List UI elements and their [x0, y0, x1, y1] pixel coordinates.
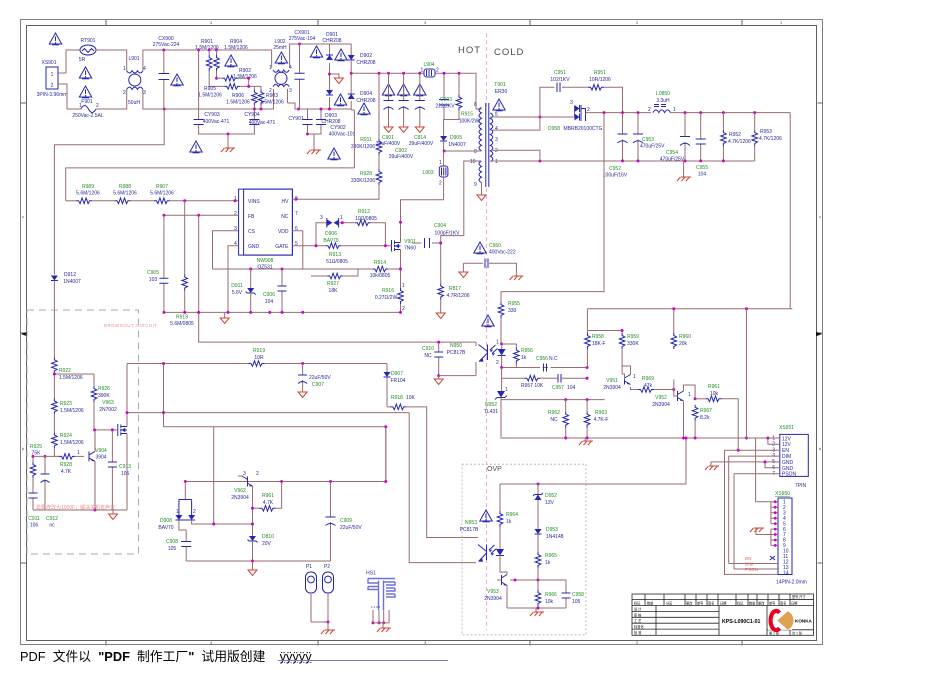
node gnd c952 — [621, 159, 624, 162]
svg-text:10k: 10k — [710, 391, 719, 397]
node C903 top — [443, 72, 446, 75]
svg-text:单号: 单号 — [697, 600, 703, 605]
resistor R914 — [213, 231, 391, 279]
svg-text:CY903: CY903 — [204, 112, 220, 118]
svg-text:R925: R925 — [30, 444, 42, 450]
svg-text:7: 7 — [295, 211, 298, 217]
svg-text:标准化: 标准化 — [634, 624, 644, 629]
node hs1 b — [378, 621, 381, 624]
capacitor C903 — [435, 73, 455, 119]
svg-text:1: 1 — [51, 72, 54, 78]
diode N953 LED — [496, 546, 504, 558]
svg-text:c: c — [22, 214, 24, 219]
capacitor C906 — [263, 269, 286, 312]
node bus1 g — [281, 311, 284, 314]
svg-text:4.7K: 4.7K — [263, 500, 274, 506]
svg-text:R989: R989 — [82, 184, 94, 190]
svg-text:10k/0805: 10k/0805 — [370, 273, 391, 279]
node stb b — [280, 480, 283, 483]
svg-text:2: 2 — [496, 360, 499, 366]
node r961 left — [694, 397, 697, 400]
svg-text:3904: 3904 — [95, 455, 106, 461]
warning triangle W10 — [335, 49, 347, 61]
node x950 p2 — [774, 506, 777, 509]
svg-text:R963: R963 — [595, 410, 607, 416]
svg-text:4.7K: 4.7K — [61, 469, 72, 475]
node HV pin wire — [294, 198, 297, 201]
resistor R955 — [498, 301, 520, 344]
svg-text:L0850: L0850 — [656, 91, 670, 97]
svg-text:NC: NC — [281, 214, 289, 220]
heatsink HS1 — [366, 571, 395, 611]
svg-text:RT901: RT901 — [81, 38, 96, 44]
svg-text:104: 104 — [567, 385, 576, 391]
resistor R953 — [752, 113, 782, 161]
transistor V951 — [603, 368, 636, 391]
svg-text:C956: C956 — [536, 356, 548, 362]
connector XS950 — [775, 491, 807, 586]
diode D902 — [348, 53, 376, 66]
svg-text:XS951: XS951 — [779, 425, 794, 431]
capacitor C952 — [603, 113, 628, 179]
node r925 top — [32, 455, 35, 458]
svg-text:V901: V901 — [404, 239, 416, 245]
wire R902 right — [238, 78, 261, 89]
svg-text:L901: L901 — [128, 56, 139, 62]
svg-text:C906: C906 — [263, 292, 275, 298]
border tick marks — [21, 20, 823, 646]
svg-text:3: 3 — [243, 471, 246, 477]
testpoint P2 — [323, 564, 334, 622]
svg-text:3PIN-3.96mm: 3PIN-3.96mm — [37, 92, 68, 98]
node CY bus — [227, 133, 230, 136]
node d810 top — [251, 507, 254, 510]
capacitor C951 — [550, 70, 588, 92]
svg-text:1.5M/1206: 1.5M/1206 — [60, 408, 84, 414]
svg-text:NC: NC — [550, 417, 558, 423]
svg-text:390K: 390K — [98, 393, 110, 399]
svg-text:4: 4 — [143, 66, 146, 72]
warning triangle W19 — [482, 315, 494, 327]
capacitor C957 — [552, 374, 587, 391]
node rail R904 — [208, 49, 211, 52]
svg-text:22uF/50V: 22uF/50V — [309, 375, 331, 381]
svg-text:4.7K-F: 4.7K-F — [593, 417, 608, 423]
node bus1 e — [249, 311, 252, 314]
IC U901 NW908 OZ531 — [234, 189, 298, 270]
node bus2 c — [682, 437, 685, 440]
capacitor CY903 — [194, 50, 230, 134]
choke L902 — [269, 39, 292, 94]
svg-text:R959: R959 — [627, 334, 639, 340]
wire AC2 sense — [351, 110, 354, 168]
zener D911 — [231, 269, 255, 312]
wire led cathode row — [502, 367, 587, 369]
mosfet V903 — [95, 400, 128, 510]
svg-text:R953: R953 — [760, 129, 772, 135]
svg-text:47k: 47k — [644, 383, 653, 389]
svg-text:D958: D958 — [548, 126, 560, 132]
svg-text:2: 2 — [234, 211, 237, 217]
svg-text:D906: D906 — [325, 231, 337, 237]
resistor R907 — [131, 184, 239, 204]
warning triangle W8 — [328, 148, 340, 160]
svg-text:C953: C953 — [642, 137, 654, 143]
node gate r913 left — [315, 244, 318, 247]
svg-text:C903: C903 — [440, 97, 452, 103]
node neutral CY — [320, 108, 323, 111]
svg-text:1: 1 — [402, 283, 405, 289]
svg-text:10k: 10k — [545, 599, 554, 605]
svg-text:P2: P2 — [324, 564, 330, 570]
diode D908 pair — [158, 482, 196, 532]
svg-text:MBRB20100CTG: MBRB20100CTG — [564, 126, 603, 132]
wire 12v pins — [747, 438, 780, 444]
node out r952 — [722, 111, 725, 114]
earth ground CY901/2 — [307, 134, 321, 154]
resistor R913 — [325, 243, 385, 265]
wire pin8 drain line — [444, 150, 481, 152]
warning triangle W13 — [382, 84, 394, 96]
svg-text:104: 104 — [698, 172, 707, 178]
svg-text:C904: C904 — [434, 223, 446, 229]
svg-text:1: 1 — [495, 159, 498, 165]
diode D903 — [321, 90, 340, 125]
svg-text:CHR208: CHR208 — [356, 98, 375, 104]
wire base link — [510, 579, 538, 581]
warning triangle W7 — [190, 141, 202, 153]
node C904 right — [439, 242, 442, 245]
capacitor C955 — [696, 113, 708, 178]
optocoupler N950 — [447, 343, 498, 362]
node bus1 i — [399, 311, 402, 314]
node R911 top — [378, 72, 381, 75]
svg-text:XS901: XS901 — [41, 60, 56, 66]
wire V901 source — [400, 253, 402, 288]
svg-text:105: 105 — [121, 471, 130, 477]
warning triangle W4 — [171, 74, 183, 86]
svg-text:R927: R927 — [327, 281, 339, 287]
node link bottom — [162, 411, 165, 414]
zener D952 — [533, 484, 557, 529]
svg-text:18K-F: 18K-F — [592, 341, 606, 347]
svg-text:C951: C951 — [554, 70, 566, 76]
inductor L0850 — [648, 91, 790, 113]
wire ovp top — [500, 438, 686, 484]
wire bottom rail — [143, 89, 274, 109]
svg-text:3: 3 — [495, 137, 498, 143]
earth ground conn — [705, 462, 740, 470]
svg-text:审 核: 审 核 — [634, 612, 642, 617]
thermistor RT901 — [79, 38, 96, 63]
svg-text:R961: R961 — [708, 384, 720, 390]
resistor R922 — [52, 357, 83, 398]
svg-text:4: 4 — [495, 126, 498, 132]
warning triangle W12 — [358, 103, 370, 115]
svg-text:5.6M/1206: 5.6M/1206 — [76, 191, 100, 197]
node out c952 — [603, 111, 606, 114]
node bus2 b — [586, 437, 589, 440]
svg-text:PC817B: PC817B — [447, 350, 466, 356]
svg-text:KONKA: KONKA — [795, 619, 813, 624]
node out c955 — [699, 111, 702, 114]
resistor R958 — [585, 333, 606, 368]
capacitor C902 — [389, 73, 414, 160]
wire dim to pin12 — [729, 563, 778, 565]
svg-text:3.3uH: 3.3uH — [656, 98, 670, 104]
svg-text:2: 2 — [51, 83, 54, 89]
node gnd c953 — [637, 159, 640, 162]
warning triangle W21 — [480, 510, 492, 522]
svg-text:GATE: GATE — [275, 244, 289, 250]
node rail x216 — [215, 49, 218, 52]
svg-text:EN: EN — [745, 556, 751, 561]
svg-text:1: 1 — [123, 66, 126, 72]
svg-text:13V: 13V — [545, 500, 555, 506]
earth ground ovp — [530, 608, 544, 616]
svg-text:L904: L904 — [423, 62, 434, 68]
capacitor C908 — [166, 530, 191, 561]
node r966 top — [537, 579, 540, 582]
wire gnd pins — [740, 462, 780, 468]
transformer primary winding top — [474, 102, 482, 155]
svg-text:1: 1 — [439, 160, 442, 166]
svg-text:R969: R969 — [642, 376, 654, 382]
resistor R962 — [548, 400, 568, 438]
node out c953 — [621, 111, 624, 114]
node gnd c954 — [684, 159, 687, 162]
node CX900 top — [162, 49, 165, 52]
svg-text:R907: R907 — [156, 184, 168, 190]
node drain C904 — [399, 221, 402, 224]
node gnd c955 — [699, 159, 702, 162]
wire FB net — [164, 214, 239, 216]
svg-text:HOT: HOT — [458, 45, 481, 56]
transistor V904 — [89, 430, 107, 510]
resistor R928 — [296, 155, 382, 199]
svg-text:R912: R912 — [358, 209, 370, 215]
xs950 pin stubs 6-9 — [771, 529, 778, 545]
svg-text:18K: 18K — [329, 288, 339, 294]
svg-text:R926: R926 — [98, 386, 110, 392]
svg-text:6: 6 — [474, 102, 477, 108]
node x950 p1 — [774, 500, 777, 503]
svg-text:5.6M/1206: 5.6M/1206 — [113, 191, 137, 197]
svg-text:4.7K/1206: 4.7K/1206 — [728, 139, 751, 145]
arrow ground brownout — [96, 510, 127, 520]
wire secondary ground bus — [490, 160, 754, 162]
wire 12V feed to R955 — [501, 113, 604, 302]
node gate node — [384, 244, 387, 247]
svg-text:5.6M/0805: 5.6M/0805 — [170, 321, 194, 327]
wire gate line — [292, 245, 325, 247]
svg-text:nc: nc — [49, 523, 55, 529]
node ref right — [586, 377, 589, 380]
wire hs1 link — [373, 623, 389, 628]
svg-text:1.5M/1206: 1.5M/1206 — [59, 375, 83, 381]
wire 426 line to bus — [385, 427, 387, 482]
svg-text:8.2k: 8.2k — [700, 415, 710, 421]
svg-text:3: 3 — [424, 20, 427, 25]
svg-text:22uF/50V: 22uF/50V — [340, 525, 362, 531]
svg-text:标记: 标记 — [634, 600, 641, 605]
node r928h left — [44, 455, 47, 458]
svg-text:C955: C955 — [696, 165, 708, 171]
node vins r919 — [183, 199, 186, 202]
wire standby to ovp opto — [409, 413, 476, 563]
capacitor C814 — [409, 73, 434, 147]
svg-text:1: 1 — [780, 20, 783, 25]
resistor R918 — [387, 395, 478, 538]
node vins pin entry — [234, 199, 237, 202]
svg-text:103: 103 — [149, 277, 158, 283]
svg-text:R913: R913 — [329, 252, 341, 258]
svg-text:R966: R966 — [545, 592, 557, 598]
svg-text:R906: R906 — [232, 93, 244, 99]
svg-text:N.C: N.C — [549, 356, 558, 362]
node R903 bot — [260, 108, 263, 111]
resistor R959 — [619, 333, 639, 374]
resistor R904 — [214, 39, 248, 71]
svg-text:2: 2 — [495, 148, 498, 154]
title block small labels — [634, 594, 806, 635]
svg-text:R911: R911 — [360, 137, 372, 143]
svg-text:V953: V953 — [487, 589, 499, 595]
svg-text:1: 1 — [77, 450, 80, 456]
svg-text:2: 2 — [439, 181, 442, 187]
resistor R952 — [721, 113, 751, 161]
svg-text:2N3904: 2N3904 — [231, 495, 249, 501]
wire neutral to L901 — [96, 89, 127, 109]
resistor R926 — [91, 374, 110, 430]
wire x950 12v feed — [756, 438, 771, 502]
svg-text:3: 3 — [570, 100, 573, 106]
border arrow left — [21, 332, 27, 336]
wire opto emitter return — [439, 362, 476, 376]
svg-text:10K: 10K — [406, 395, 416, 401]
resistor R912 — [355, 209, 386, 246]
node C902 top — [402, 72, 405, 75]
node source sense — [399, 268, 402, 271]
node bus1 a — [162, 311, 165, 314]
resistor R902 — [217, 68, 258, 81]
wire ref row — [502, 368, 525, 379]
wire vdd/d911 row — [213, 231, 303, 269]
svg-text:b: b — [819, 446, 822, 451]
wire live in — [58, 50, 80, 73]
wire brownout chain — [53, 310, 55, 357]
svg-text:R958: R958 — [592, 334, 604, 340]
svg-text:C908: C908 — [166, 539, 178, 545]
capacitor C913 — [108, 430, 131, 510]
svg-text:FR104: FR104 — [390, 378, 405, 384]
svg-text:2: 2 — [256, 471, 259, 477]
svg-text:R914: R914 — [374, 260, 386, 266]
svg-text:D908: D908 — [160, 518, 172, 524]
svg-text:400Vac-101: 400Vac-101 — [329, 132, 356, 138]
svg-text:OZ531: OZ531 — [257, 265, 273, 271]
svg-text:N953: N953 — [465, 520, 477, 526]
svg-text:2: 2 — [193, 509, 196, 515]
node gnd pin — [764, 460, 767, 463]
svg-text:330K: 330K — [627, 341, 639, 347]
svg-text:C958: C958 — [572, 592, 584, 598]
node r959 stub — [621, 329, 624, 332]
resistor R961c — [260, 482, 282, 512]
resistor R817 — [436, 243, 470, 319]
wire gnd pin — [228, 246, 239, 313]
capacitor C950 hot-cold bridge — [459, 243, 524, 280]
resistor R911 — [351, 73, 382, 155]
node C901 top — [387, 72, 390, 75]
diode D907 — [384, 364, 406, 407]
node bus2 e — [745, 437, 748, 440]
svg-text:4.7K/1206: 4.7K/1206 — [759, 136, 782, 142]
svg-text:TL431: TL431 — [484, 409, 498, 415]
svg-text:5.6M/1206: 5.6M/1206 — [150, 191, 174, 197]
node fb x198 — [197, 214, 200, 217]
node bus1 h — [301, 311, 304, 314]
svg-text:工 艺: 工 艺 — [634, 618, 641, 623]
svg-text:C952: C952 — [609, 166, 621, 172]
earth ground x950 — [750, 528, 771, 535]
resistor R960 — [671, 333, 691, 349]
svg-text:C907: C907 — [312, 382, 324, 388]
svg-text:更改: 更改 — [758, 600, 765, 605]
svg-text:R924: R924 — [60, 433, 72, 439]
arrow ground bridge — [330, 74, 344, 84]
svg-text:GND: GND — [248, 244, 260, 250]
svg-text:1: 1 — [688, 392, 691, 398]
svg-text:PSON: PSON — [745, 567, 758, 572]
svg-text:1: 1 — [234, 196, 237, 202]
choke L901 — [123, 56, 146, 106]
svg-text:FB: FB — [248, 214, 255, 220]
svg-text:5R: 5R — [79, 57, 86, 63]
mosfet V901 — [385, 239, 416, 253]
node link top — [162, 362, 165, 365]
svg-text:1: 1 — [79, 103, 82, 109]
svg-text:HV: HV — [282, 199, 290, 205]
svg-text:D911: D911 — [231, 283, 243, 289]
warning triangle W11 — [334, 94, 346, 106]
zener D810 — [248, 490, 275, 561]
resistor R966 — [535, 580, 557, 608]
svg-text:50uH: 50uH — [128, 100, 140, 106]
wire v952 emitter — [683, 404, 685, 438]
svg-text:470uF/25V: 470uF/25V — [640, 144, 665, 150]
wire L903 to drain — [401, 177, 444, 240]
svg-text:1N4007: 1N4007 — [448, 142, 466, 148]
resistor R969 — [638, 376, 674, 392]
svg-text:CHR208: CHR208 — [322, 38, 341, 44]
svg-text:10: 10 — [470, 159, 476, 165]
svg-text:3: 3 — [289, 88, 292, 94]
svg-text:1k: 1k — [521, 355, 527, 361]
wire n953 led k — [500, 557, 504, 573]
node R902 right — [247, 77, 250, 80]
svg-text:10Ω/0805: 10Ω/0805 — [355, 216, 377, 222]
diode D901 — [322, 32, 341, 60]
svg-text:1.5M/1206: 1.5M/1206 — [226, 100, 250, 106]
svg-text:R919: R919 — [253, 348, 265, 354]
svg-text:100K/2W: 100K/2W — [459, 119, 480, 125]
wire v951 collector top — [622, 366, 630, 368]
resistor R928b — [59, 450, 84, 475]
KONKA logo — [768, 609, 794, 630]
wire primary bus1 — [164, 311, 401, 313]
svg-text:R964: R964 — [506, 512, 518, 518]
